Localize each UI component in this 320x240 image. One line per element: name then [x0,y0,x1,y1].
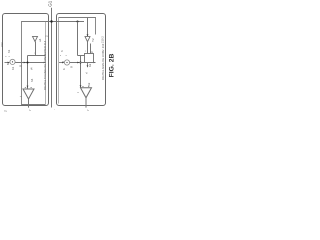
svg-text:b1: b1 [11,66,15,70]
svg-text:~: ~ [33,52,37,54]
svg-text:u4: u4 [38,38,42,42]
svg-text:G1: G1 [47,0,52,7]
svg-text:212: 212 [0,42,4,47]
svg-text:b2: b2 [88,63,92,67]
svg-text:h2: h2 [87,82,91,86]
svg-text:DIGITAL TO ANALOG CONVERTER 21: DIGITAL TO ANALOG CONVERTER 214 [43,40,47,90]
svg-text:Y2: Y2 [91,38,95,42]
svg-text:h1: h1 [7,49,11,53]
svg-text:h4: h4 [30,78,34,82]
svg-text:DIGITAL ANALOG CONV. 210: DIGITAL ANALOG CONV. 210 [101,43,105,80]
svg-text:FIG. 2B: FIG. 2B [108,54,114,78]
svg-text:210 2: 210 2 [101,36,105,43]
svg-text:t4: t4 [30,67,34,70]
svg-text:~: ~ [83,50,87,52]
svg-text:A: A [61,61,65,63]
